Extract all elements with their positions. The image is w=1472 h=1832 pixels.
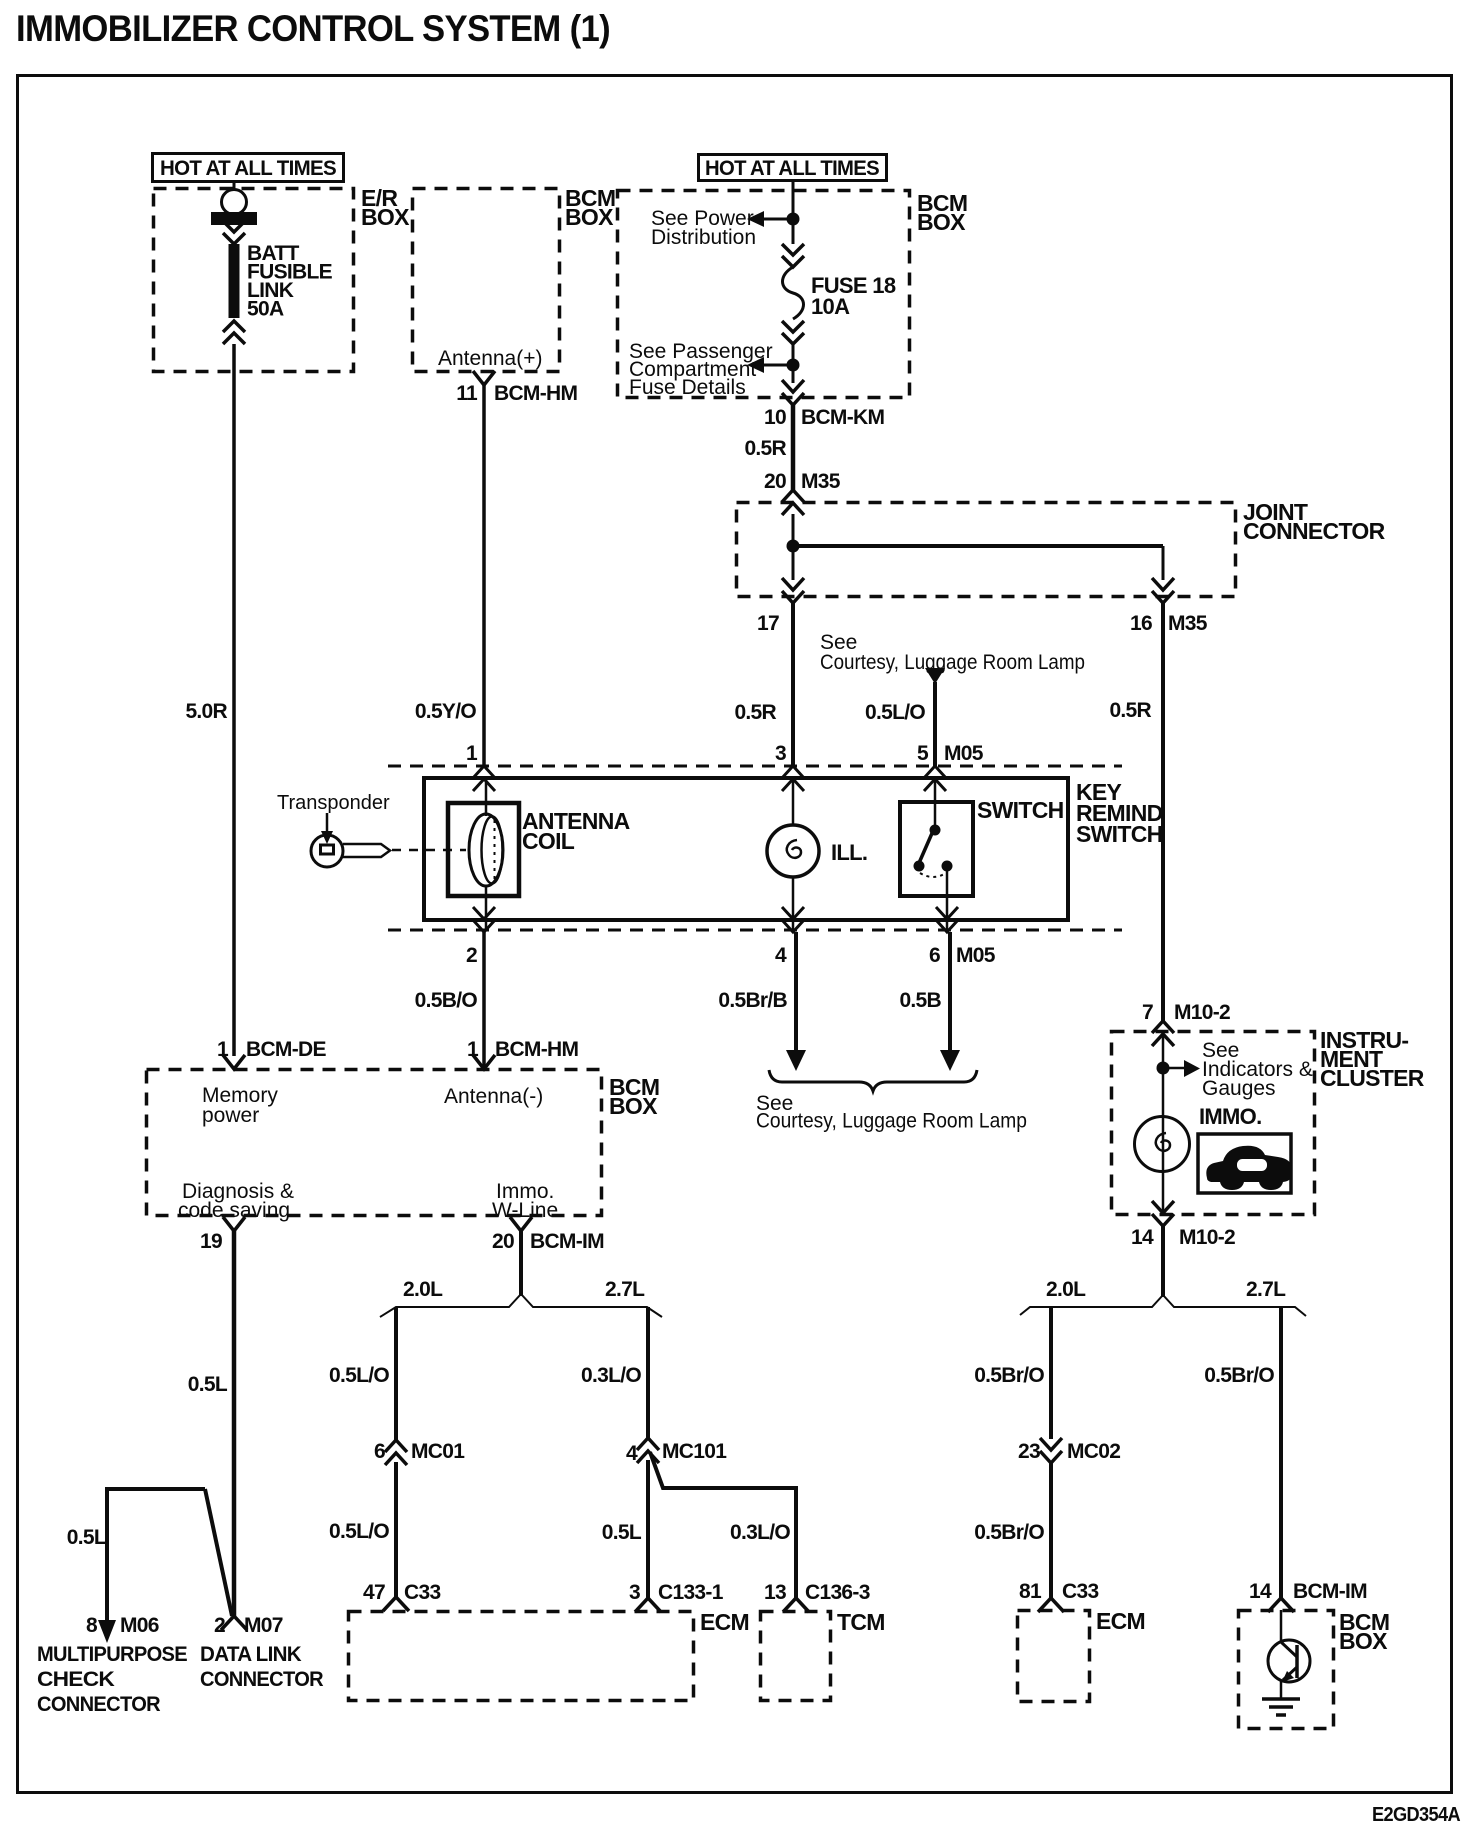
svg-text:6: 6 [929, 944, 940, 967]
wire 0.5L/O [933, 682, 937, 766]
box immo indicator icon [1198, 1134, 1291, 1193]
wire split left 2.0L/2.7L [380, 1294, 662, 1317]
svg-text:ECM: ECM [700, 1609, 749, 1635]
svg-text:2: 2 [214, 1614, 225, 1637]
svg-text:0.5B/O: 0.5B/O [415, 989, 478, 1012]
svg-text:81: 81 [1019, 1580, 1042, 1603]
wire 19 drop [232, 1231, 237, 1616]
svg-text:Memorypower: Memorypower [202, 1084, 278, 1127]
svg-text:0.5R: 0.5R [734, 701, 776, 724]
svg-text:SWITCH: SWITCH [977, 797, 1064, 823]
svg-text:2.0L: 2.0L [1046, 1278, 1086, 1301]
svg-text:KEYREMINDSWITCH: KEYREMINDSWITCH [1076, 779, 1163, 847]
svg-text:7: 7 [1142, 1001, 1153, 1024]
svg-text:E/RBOX: E/RBOX [361, 185, 410, 230]
svg-text:13: 13 [764, 1581, 786, 1604]
svg-text:ILL.: ILL. [831, 840, 867, 865]
svg-text:2: 2 [466, 944, 477, 967]
pin 13 C136-3 [783, 1598, 809, 1612]
arrow right indicators [1184, 1060, 1200, 1077]
svg-text:M35: M35 [1168, 612, 1208, 635]
svg-text:SeeCourtesy, Luggage Room Lamp: SeeCourtesy, Luggage Room Lamp [756, 1092, 1027, 1133]
wire 0.5Br/O right branch [1279, 1307, 1283, 1598]
svg-text:INSTRU-MENTCLUSTER: INSTRU-MENTCLUSTER [1320, 1027, 1425, 1091]
wire 0.3L/O right branch [646, 1307, 650, 1438]
svg-text:C33: C33 [1062, 1580, 1098, 1603]
transponder chip [321, 845, 334, 854]
wire diagonal to M07 [205, 1489, 232, 1616]
wire switch inside bottom [946, 866, 949, 930]
svg-text:MC01: MC01 [411, 1440, 465, 1463]
svg-text:20: 20 [764, 470, 786, 493]
wire 20 BCM-IM drop [519, 1231, 523, 1296]
pin 4 chevrons [782, 907, 804, 932]
wire 0.5L/O left branch [394, 1307, 398, 1440]
box ECM right (dashed) [1018, 1611, 1090, 1702]
svg-text:MC101: MC101 [662, 1440, 727, 1463]
pin 14 BCM-IM [1268, 1598, 1294, 1612]
pin 11 BCM-HM [473, 371, 495, 385]
svg-text:M07: M07 [244, 1614, 283, 1637]
svg-text:Diagnosis &code saving: Diagnosis &code saving [178, 1180, 294, 1222]
wire 0.5Br/O left [1049, 1307, 1053, 1439]
svg-text:ANTENNACOIL: ANTENNACOIL [522, 808, 630, 854]
svg-text:BCM-KM: BCM-KM [801, 406, 884, 429]
svg-text:17: 17 [757, 612, 779, 635]
wire 0.5B [948, 932, 952, 1052]
svg-text:4: 4 [775, 944, 787, 967]
pin 14 M10-2 chevrons [1152, 1201, 1174, 1226]
antenna coil axis dashed [494, 820, 496, 882]
wire branch MC101 to TCM [650, 1452, 796, 1598]
arrow left see power distribution [747, 211, 764, 227]
switch contact top [930, 825, 941, 836]
svg-text:BCM-HM: BCM-HM [494, 382, 577, 405]
svg-text:IMMO.: IMMO. [1199, 1104, 1262, 1129]
switch blade [919, 831, 933, 863]
arrow 8 M06 [98, 1620, 116, 1643]
box INSTRUMENT CLUSTER (dashed) [1112, 1032, 1315, 1215]
svg-text:Antenna(-): Antenna(-) [444, 1085, 543, 1108]
icon car silhouette [1206, 1146, 1292, 1190]
svg-text:0.5L/O: 0.5L/O [865, 701, 925, 724]
box SWITCH [900, 802, 973, 896]
wire see passenger [761, 364, 793, 367]
svg-text:4: 4 [626, 1442, 638, 1465]
svg-text:0.5Y/O: 0.5Y/O [415, 700, 477, 723]
svg-text:DATA LINKCONNECTOR: DATA LINKCONNECTOR [200, 1643, 324, 1691]
svg-text:0.5L/O: 0.5L/O [329, 1520, 389, 1543]
wire inside joint connector [792, 514, 795, 580]
svg-text:BCMBOX: BCMBOX [917, 190, 967, 235]
svg-text:SeeIndicators &Gauges: SeeIndicators &Gauges [1202, 1039, 1313, 1100]
svg-text:2.0L: 2.0L [403, 1278, 443, 1301]
wire 0.5R ill feed [791, 603, 795, 766]
svg-text:TCM: TCM [837, 1609, 885, 1635]
box BCM BOX lower-left (dashed) [147, 1070, 602, 1216]
svg-text:Transponder: Transponder [277, 792, 390, 814]
svg-text:M10-2: M10-2 [1174, 1001, 1230, 1024]
transponder key blade [343, 844, 390, 857]
node passenger fuse junction [787, 359, 800, 372]
svg-text:23: 23 [1018, 1440, 1040, 1463]
svg-text:14: 14 [1131, 1226, 1154, 1249]
wire out of coil [485, 886, 488, 930]
svg-text:5.0R: 5.0R [185, 700, 227, 723]
switch travel arc dotted [920, 873, 946, 877]
box BCM BOX middle (dashed) [618, 191, 910, 398]
svg-text:3: 3 [775, 742, 786, 765]
brace courtesy lamp [769, 1070, 977, 1091]
wire cluster output [1161, 1226, 1165, 1297]
wire below fuse [792, 344, 795, 383]
svg-text:0.5L: 0.5L [602, 1521, 642, 1544]
svg-text:11: 11 [456, 382, 478, 405]
box ECM left (dashed) [349, 1612, 694, 1701]
wire 0.5Br/O lower [1049, 1463, 1053, 1598]
svg-text:0.5Br/O: 0.5Br/O [1204, 1364, 1274, 1387]
svg-text:BCM-HM: BCM-HM [495, 1038, 578, 1061]
svg-text:0.3L/O: 0.3L/O [730, 1521, 790, 1544]
svg-text:MC02: MC02 [1067, 1440, 1120, 1463]
pin 3 C133-1 [635, 1598, 661, 1612]
svg-text:BCMBOX: BCMBOX [1339, 1609, 1389, 1654]
svg-text:FUSE 1810A: FUSE 1810A [811, 273, 896, 319]
svg-text:ECM: ECM [1096, 1608, 1145, 1634]
lamp ILL [767, 825, 819, 877]
wire see power distribution [761, 218, 793, 221]
connector 4 MC101 chevrons [637, 1438, 659, 1463]
pin 20 M35 chevrons [782, 490, 804, 515]
switch contact right [942, 861, 953, 872]
svg-text:M10-2: M10-2 [1179, 1226, 1235, 1249]
wire 0.5L/O lower [394, 1462, 398, 1597]
wire ill inside bottom [792, 877, 795, 930]
pin 19 [223, 1217, 245, 1231]
label HOT AT ALL TIMES (left) [153, 154, 344, 182]
key remind switch connector dashed line top [388, 765, 1122, 768]
transistor driver [1268, 1640, 1310, 1682]
wire 0.5L [646, 1460, 650, 1598]
svg-text:MULTIPURPOSECHECKCONNECTOR: MULTIPURPOSECHECKCONNECTOR [37, 1643, 188, 1716]
pin 20 BCM-IM [510, 1217, 532, 1231]
svg-text:See PassengerCompartmentFuse D: See PassengerCompartmentFuse Details [629, 340, 773, 399]
svg-text:10: 10 [764, 406, 786, 429]
connector 23 MC02 chevrons [1040, 1438, 1062, 1463]
box antenna coil [448, 803, 519, 896]
svg-text:8: 8 [86, 1614, 98, 1637]
box TCM (dashed) [761, 1612, 831, 1701]
wire into transistor [1280, 1610, 1283, 1642]
svg-text:IMMOBILIZER CONTROL SYSTEM (1): IMMOBILIZER CONTROL SYSTEM (1) [16, 8, 610, 49]
pin 2 M07 [221, 1616, 247, 1630]
box E/R BOX (dashed) [154, 189, 354, 372]
wire inside cluster [1162, 1033, 1165, 1215]
svg-text:M35: M35 [801, 470, 841, 493]
pin 47 C33 [383, 1597, 409, 1611]
wire 0.5Br/B [794, 932, 798, 1052]
svg-text:M05: M05 [956, 944, 996, 967]
pin 16 M35 chevrons [1152, 578, 1174, 603]
svg-text:M05: M05 [944, 742, 984, 765]
pin 2 chevrons [473, 907, 495, 932]
transponder key head [311, 835, 343, 867]
wire branch to M06 [107, 1489, 205, 1622]
wire joint horizontal [793, 544, 1163, 548]
svg-text:C133-1: C133-1 [658, 1581, 724, 1604]
svg-text:2.7L: 2.7L [605, 1278, 645, 1301]
svg-text:0.5L: 0.5L [188, 1373, 228, 1396]
transponder leader arrow [326, 813, 329, 836]
wire switch inside top [934, 778, 937, 829]
connector chevrons above fuse [782, 244, 804, 267]
svg-text:47: 47 [363, 1581, 385, 1604]
svg-text:BCM-DE: BCM-DE [246, 1038, 326, 1061]
svg-text:E2GD354A: E2GD354A [1372, 1804, 1460, 1826]
svg-text:HOT AT ALL TIMES: HOT AT ALL TIMES [705, 157, 880, 180]
svg-text:19: 19 [200, 1230, 222, 1253]
svg-text:0.3L/O: 0.3L/O [581, 1364, 641, 1387]
lamp IMMO filament [1156, 1133, 1170, 1151]
svg-text:SeeCourtesy, Luggage Room Lamp: SeeCourtesy, Luggage Room Lamp [820, 631, 1085, 674]
icon car window cutout [1237, 1159, 1267, 1171]
svg-text:0.5L: 0.5L [67, 1526, 107, 1549]
svg-text:Immo.W-Line: Immo.W-Line [492, 1180, 558, 1222]
svg-text:3: 3 [629, 1581, 640, 1604]
wire to indicators [1163, 1067, 1185, 1070]
svg-text:20: 20 [492, 1230, 514, 1253]
wire to ground [1280, 1680, 1283, 1698]
antenna coil ellipse outer [469, 814, 503, 886]
arrow left see passenger [747, 357, 764, 373]
box JOINT CONNECTOR (dashed) [737, 503, 1236, 597]
fuse FUSE 18 10A [783, 267, 804, 319]
pin 5 M05 chevrons [924, 766, 946, 791]
wire ill inside top [792, 778, 795, 826]
wire into coil [485, 778, 488, 816]
pin 1 chevrons [473, 766, 495, 791]
svg-text:0.5B: 0.5B [899, 989, 941, 1012]
pin 81 C33 [1038, 1598, 1064, 1612]
pin 10 BCM-KM chevrons [782, 380, 804, 405]
fusible link BATT FUSIBLE LINK 50A [211, 181, 257, 344]
arrow from courtesy lamp [925, 668, 945, 684]
wire joint right drop [1162, 546, 1165, 580]
box BCM BOX upper (antenna, dashed) [413, 189, 560, 372]
svg-text:16: 16 [1130, 612, 1152, 635]
transponder coupling dashed [392, 849, 466, 852]
svg-text:JOINTCONNECTOR: JOINTCONNECTOR [1243, 499, 1386, 544]
wire 5.0R (battery feed) [232, 344, 236, 1056]
svg-text:HOT AT ALL TIMES: HOT AT ALL TIMES [160, 157, 337, 180]
svg-text:C136-3: C136-3 [805, 1581, 870, 1604]
svg-text:14: 14 [1249, 1580, 1272, 1603]
arrow 0.5Br/B down [786, 1050, 806, 1071]
svg-text:5: 5 [917, 742, 929, 765]
pin 6 M05 chevrons [936, 907, 958, 932]
pin 17 chevrons [782, 578, 804, 603]
wire 0.5Y/O [482, 385, 486, 766]
wire 0.5R [791, 405, 796, 490]
node joint junction [787, 540, 800, 553]
svg-text:0.5R: 0.5R [744, 437, 786, 460]
key remind switch connector dashed line bottom [388, 929, 1122, 932]
svg-text:C33: C33 [404, 1581, 440, 1604]
lamp IMMO [1135, 1117, 1190, 1172]
connector chevrons below fuse [782, 321, 804, 344]
svg-text:0.5R: 0.5R [1109, 699, 1151, 722]
svg-text:M06: M06 [120, 1614, 159, 1637]
box BCM BOX bottom-right (dashed) [1239, 1611, 1334, 1729]
box KEY REMIND SWITCH [424, 778, 1068, 920]
node power distribution junction [787, 213, 800, 226]
pin 3 chevrons [782, 766, 804, 791]
connector 6 MC01 chevrons [385, 1440, 407, 1465]
svg-text:0.5Br/O: 0.5Br/O [974, 1521, 1044, 1544]
pin 7 M10-2 chevrons [1152, 1021, 1174, 1046]
svg-text:Antenna(+): Antenna(+) [438, 347, 543, 370]
svg-text:2.7L: 2.7L [1246, 1278, 1286, 1301]
node indicators junction [1157, 1062, 1170, 1075]
switch contact left [914, 861, 925, 872]
svg-text:See PowerDistribution: See PowerDistribution [651, 207, 756, 249]
wire from hot feed [792, 181, 795, 244]
svg-text:0.5Br/O: 0.5Br/O [974, 1364, 1044, 1387]
svg-text:1: 1 [466, 742, 478, 765]
antenna coil ellipse inner [482, 817, 503, 884]
wire 0.5B/O [482, 932, 486, 1069]
svg-text:BCM-IM: BCM-IM [530, 1230, 604, 1253]
svg-text:6: 6 [374, 1440, 385, 1463]
wire 0.5R to cluster [1161, 603, 1165, 1021]
arrow 0.5B down [940, 1050, 960, 1071]
svg-text:BATTFUSIBLELINK50A: BATTFUSIBLELINK50A [247, 242, 333, 321]
svg-text:BCMBOX: BCMBOX [609, 1074, 659, 1119]
wire split right 2.0L/2.7L [1020, 1295, 1306, 1316]
lamp ILL filament [787, 840, 801, 858]
svg-text:BCMBOX: BCMBOX [565, 185, 615, 230]
ground [1262, 1699, 1300, 1715]
label HOT AT ALL TIMES (middle) [699, 155, 887, 181]
svg-text:0.5Br/B: 0.5Br/B [718, 989, 787, 1012]
svg-text:0.5L/O: 0.5L/O [329, 1364, 389, 1387]
svg-text:BCM-IM: BCM-IM [1293, 1580, 1367, 1603]
